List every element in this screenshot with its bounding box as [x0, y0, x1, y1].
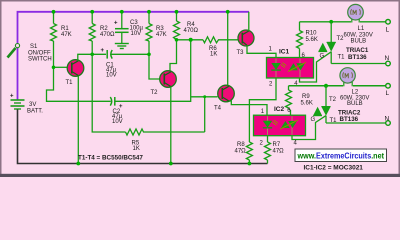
resistor R8	[246, 142, 252, 164]
wire: T4 collector to purple rail	[227, 12, 229, 86]
label C1 47µ 10V	[106, 63, 117, 79]
wire: IC2 pin 4 to gate2	[292, 116, 326, 140]
svg-text:47K: 47K	[156, 32, 167, 38]
node triac1 top	[329, 20, 333, 24]
node T1 base	[52, 66, 56, 70]
svg-text:N: N	[385, 116, 390, 123]
svg-text:10V: 10V	[106, 73, 117, 79]
label R6 1K	[209, 46, 217, 58]
resistor R1	[51, 12, 57, 68]
svg-text:R10: R10	[306, 31, 318, 37]
svg-text:47Ω: 47Ω	[235, 149, 247, 155]
opto coupler IC2	[254, 115, 306, 136]
wire: T1 emitter to rail	[77, 76, 79, 164]
resistor R3	[146, 12, 152, 55]
svg-text:BULB: BULB	[347, 101, 363, 107]
wire: T2 emitter to rail	[170, 87, 172, 164]
svg-text:IC1-IC2 = MOC3021: IC1-IC2 = MOC3021	[304, 164, 364, 171]
svg-text:47Ω: 47Ω	[273, 149, 285, 155]
capacitor C3	[115, 12, 129, 44]
border frame	[0, 0, 400, 177]
label R4 470Ω	[184, 22, 199, 34]
node junction R4/T2	[175, 38, 179, 42]
svg-text:+: +	[10, 94, 14, 100]
label S1 ON/OFF SWITCH	[28, 44, 52, 63]
svg-text:T1-T4 = BC550/BC547: T1-T4 = BC550/BC547	[78, 155, 143, 162]
svg-text:G: G	[320, 54, 325, 60]
label L2 60W 230V BULB	[340, 90, 369, 108]
wire: R5 right vertical up to T4 base	[204, 97, 206, 132]
transistor T3	[238, 30, 254, 46]
svg-text:L1: L1	[358, 26, 365, 32]
wire: T3 emitter to IC1 pin1	[247, 45, 276, 57]
resistor R4	[174, 12, 180, 40]
ground	[115, 44, 129, 49]
svg-text:R8: R8	[237, 142, 245, 148]
wire: C1 right to R3 node and T2 base	[111, 54, 160, 79]
svg-text:5.6K: 5.6K	[301, 101, 313, 107]
wire: negative black rail	[18, 110, 268, 164]
svg-text:SWITCH: SWITCH	[28, 57, 52, 63]
opto coupler IC1	[267, 58, 314, 79]
label TRIAC2 BT136	[338, 110, 361, 123]
wire: T4 base drive vertical	[115, 40, 191, 102]
svg-text:R9: R9	[302, 94, 310, 100]
triac TRIAC2	[313, 86, 330, 123]
terminal N2	[386, 121, 391, 126]
svg-text:BT136: BT136	[340, 116, 359, 123]
wire: positive purple rail	[18, 12, 250, 100]
svg-text:10V: 10V	[112, 119, 123, 125]
svg-text:T1: T1	[66, 80, 74, 86]
node T4 base join	[203, 95, 206, 98]
resistor R10	[297, 22, 303, 51]
wire: T2 collector jog	[170, 40, 177, 71]
svg-text:T1: T1	[338, 55, 346, 61]
triac TRIAC1	[318, 22, 335, 64]
label C3 100µ 10V	[130, 20, 144, 37]
switch S1	[8, 44, 20, 58]
node triac2 top	[324, 84, 328, 88]
svg-text:T3: T3	[237, 50, 245, 56]
wire: T4 base	[191, 96, 218, 98]
photo triac inside IC1	[289, 63, 298, 70]
svg-text:T4: T4	[214, 106, 222, 112]
node T2 emitter on rail	[169, 162, 173, 166]
svg-text:N: N	[385, 55, 390, 62]
svg-text:T2: T2	[151, 90, 159, 96]
resistor R5	[126, 129, 205, 135]
svg-text:BATT.: BATT.	[27, 109, 43, 115]
label R7 47Ω	[273, 142, 285, 155]
wire: lamp line 1	[300, 21, 352, 23]
svg-text:1K: 1K	[210, 52, 217, 58]
capacitor C1	[107, 50, 112, 59]
label TRIAC1 BT136	[346, 47, 369, 61]
website box	[295, 149, 387, 162]
label R9 5.6K	[301, 94, 313, 107]
wire: T2 collector node to R6	[177, 39, 204, 41]
svg-text:BULB: BULB	[351, 39, 367, 45]
svg-text:T2: T2	[329, 97, 337, 103]
svg-text:L: L	[386, 27, 390, 34]
label L1 60W 230V BULB	[344, 26, 373, 45]
wire: IC1 pin 4 to gate	[300, 52, 332, 82]
svg-text:+: +	[114, 21, 118, 27]
wire: IC1 pin2 to R8	[249, 78, 276, 142]
resistor R2	[89, 12, 95, 55]
label 3V BATT.	[27, 102, 43, 115]
wire: triac1 T1 to N	[331, 63, 386, 65]
svg-text:S1: S1	[30, 44, 38, 50]
wire: C2 left path from T1 base node	[47, 67, 111, 101]
resistor R9	[286, 86, 292, 115]
svg-text:L: L	[386, 90, 390, 97]
svg-text:10V: 10V	[131, 31, 142, 37]
node R8 on rail	[248, 162, 252, 166]
label R10 5.6K	[306, 31, 318, 43]
label C2 47µ 10V	[112, 109, 123, 125]
svg-text:5.6K: 5.6K	[306, 37, 318, 43]
capacitor C2	[110, 97, 115, 106]
label R5 1K	[132, 140, 140, 152]
terminal N1	[386, 61, 391, 66]
pin 6 lead	[299, 51, 301, 58]
svg-text:470Ω: 470Ω	[100, 32, 115, 38]
terminal L2	[386, 84, 391, 89]
LED inside IC1	[271, 63, 280, 70]
node junction	[189, 38, 193, 42]
lamp L2	[340, 68, 355, 87]
pin 2 lead	[267, 136, 269, 142]
svg-text:G: G	[311, 117, 316, 123]
svg-text:T2: T2	[337, 36, 345, 42]
node dots on purple rail	[52, 10, 230, 14]
transistor T2	[160, 71, 177, 88]
svg-text:IC1: IC1	[279, 49, 290, 56]
svg-text:3V: 3V	[29, 102, 36, 108]
transistor T4	[218, 85, 235, 102]
wire: lamp line 2	[289, 85, 344, 87]
photo triac inside IC2	[281, 121, 290, 128]
svg-text:R7: R7	[273, 142, 281, 148]
node R2 bottom	[90, 53, 94, 57]
wire: R5 left vertical from T1 collector node	[92, 54, 125, 132]
lamp L1	[348, 4, 364, 22]
resistor R6	[203, 37, 239, 43]
node R3 bottom	[147, 53, 151, 57]
LED inside IC2	[263, 121, 272, 128]
wire: T4 emitter to IC2 pin1	[229, 101, 267, 115]
label R3 47K	[156, 26, 167, 38]
wire: triac2 T1 to N	[326, 122, 387, 124]
label R1 47K	[61, 26, 72, 38]
svg-text:47K: 47K	[61, 32, 72, 38]
svg-text:BT136: BT136	[348, 54, 367, 61]
svg-text:www.ExtremeCircuits.net: www.ExtremeCircuits.net	[297, 152, 385, 161]
node T1 emitter on rail	[76, 162, 80, 166]
label R2 470Ω	[100, 26, 115, 38]
wire: T1 collector	[78, 54, 106, 61]
wire: T3 collector to rail end	[248, 12, 250, 31]
label R8 47Ω	[235, 142, 247, 155]
svg-text:1K: 1K	[133, 146, 140, 152]
svg-text:470Ω: 470Ω	[184, 28, 199, 34]
terminal L1	[386, 20, 391, 25]
battery BATT 3V	[11, 100, 25, 109]
transistor T1	[54, 60, 84, 77]
svg-text:IC2: IC2	[274, 106, 285, 113]
svg-text:+: +	[101, 48, 105, 54]
resistor R7	[265, 142, 271, 164]
